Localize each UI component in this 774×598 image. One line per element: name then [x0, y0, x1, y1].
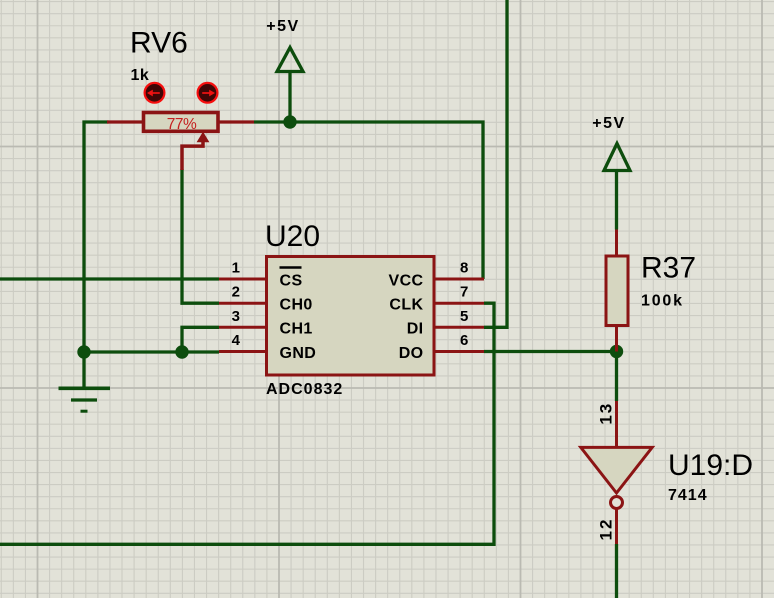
- potentiometer RV6 decrement button: [145, 83, 165, 103]
- inverter U19:D output bubble: [611, 497, 623, 509]
- svg-text:DO: DO: [399, 345, 424, 362]
- wire wiper to pin 2 (CH0): [182, 169, 219, 303]
- svg-text:6: 6: [460, 332, 468, 349]
- power +5V symbol left: [277, 48, 303, 72]
- svg-text:+5V: +5V: [266, 18, 299, 35]
- wire +5V stem left: [288, 72, 291, 123]
- svg-text:CH0: CH0: [280, 297, 313, 314]
- svg-text:GND: GND: [280, 345, 317, 362]
- svg-text:100k: 100k: [641, 293, 684, 310]
- wire inverter output to bottom edge: [615, 544, 618, 598]
- wire pot-right to VCC pin 8: [254, 122, 483, 279]
- svg-text:+5V: +5V: [592, 115, 625, 132]
- svg-text:1k: 1k: [131, 67, 150, 84]
- wire pin 3 to GND row: [182, 327, 219, 352]
- svg-text:7: 7: [460, 284, 468, 301]
- svg-text:CLK: CLK: [389, 297, 423, 314]
- IC U20 body: [267, 257, 435, 376]
- svg-text:U19:D: U19:D: [668, 449, 753, 482]
- wire pot-left to ground vertical: [84, 122, 109, 352]
- resistor R37 leads: [615, 230, 618, 352]
- svg-text:CS: CS: [280, 272, 303, 289]
- svg-text:CH1: CH1: [280, 321, 313, 338]
- svg-text:U20: U20: [265, 220, 320, 253]
- svg-text:8: 8: [460, 260, 468, 277]
- junction node ground row / pin3: [175, 345, 188, 358]
- wire pin 6 DO to R37 node: [484, 350, 617, 353]
- svg-text:12: 12: [597, 518, 616, 541]
- junction node DO / R37 / inverter: [610, 345, 623, 358]
- potentiometer RV6 wiper: [182, 141, 203, 170]
- IC U20 pin stubs left: [219, 279, 266, 352]
- power +5V symbol right: [604, 144, 630, 171]
- svg-text:R37: R37: [641, 252, 696, 285]
- wire CS pin 1 to left edge: [0, 277, 219, 280]
- wire +5V stem right to R37: [615, 171, 618, 230]
- svg-text:4: 4: [232, 332, 241, 349]
- svg-text:5: 5: [460, 308, 468, 325]
- svg-text:2: 2: [232, 284, 240, 301]
- svg-text:77%: 77%: [167, 116, 197, 133]
- potentiometer RV6 body: [144, 113, 219, 132]
- wire GND row to pin 4: [84, 350, 219, 353]
- wire pin 5 DI to top vertical: [484, 0, 507, 327]
- svg-text:RV6: RV6: [130, 27, 188, 60]
- inverter U19:D output pin 12: [615, 509, 618, 544]
- junction node ground row left: [77, 345, 90, 358]
- potentiometer RV6 leads: [107, 120, 254, 123]
- svg-text:7414: 7414: [668, 487, 708, 504]
- svg-text:13: 13: [597, 402, 616, 425]
- inverter U19:D triangle body: [581, 447, 652, 493]
- svg-text:VCC: VCC: [389, 272, 424, 289]
- ground symbol: [59, 388, 111, 411]
- inverter U19:D input pin 13: [615, 401, 618, 446]
- svg-text:1: 1: [232, 260, 240, 277]
- potentiometer RV6 increment button: [198, 83, 218, 103]
- junction node at +5V / pot: [283, 115, 296, 128]
- IC U20 pin stubs right: [434, 279, 484, 352]
- svg-text:3: 3: [232, 308, 240, 325]
- svg-text:DI: DI: [407, 321, 424, 338]
- wire pin 7 CLK down to bottom wire: [0, 303, 494, 544]
- wire ground stem: [82, 352, 85, 387]
- resistor R37 body: [606, 256, 628, 326]
- svg-text:ADC0832: ADC0832: [266, 381, 343, 398]
- wire R37 to inverter input: [615, 352, 618, 402]
